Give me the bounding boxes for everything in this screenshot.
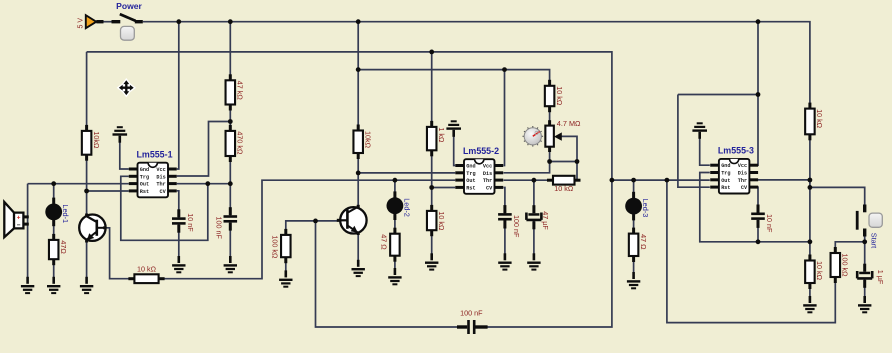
svg-text:Out: Out (466, 178, 475, 184)
svg-text:10 kΩ: 10 kΩ (815, 261, 824, 281)
svg-text:Dis: Dis (483, 171, 492, 177)
svg-text:Thr: Thr (483, 178, 492, 184)
svg-text:100 kΩ: 100 kΩ (271, 235, 280, 259)
svg-text:Led-3: Led-3 (641, 199, 650, 218)
svg-text:−: − (17, 222, 21, 229)
svg-text:Rst: Rst (721, 185, 730, 191)
svg-text:CV: CV (159, 189, 166, 195)
svg-text:47 Ω: 47 Ω (639, 234, 648, 250)
svg-text:Rst: Rst (466, 185, 475, 191)
svg-text:10 nF: 10 nF (186, 213, 195, 232)
svg-text:+: + (17, 215, 21, 222)
svg-text:Lm555-3: Lm555-3 (718, 146, 754, 156)
svg-text:Out: Out (721, 178, 730, 184)
svg-text:Thr: Thr (156, 182, 165, 188)
svg-text:Gnd: Gnd (721, 163, 730, 169)
svg-text:Rst: Rst (140, 189, 149, 195)
svg-text:Dis: Dis (156, 174, 165, 180)
svg-text:Gnd: Gnd (466, 164, 475, 170)
svg-text:Thr: Thr (738, 178, 747, 184)
svg-text:Out: Out (140, 182, 149, 188)
svg-text:Led-2: Led-2 (402, 198, 411, 217)
svg-text:47 µF: 47 µF (541, 211, 550, 230)
svg-text:Gnd: Gnd (140, 167, 149, 173)
svg-text:4.7 MΩ: 4.7 MΩ (557, 119, 581, 128)
svg-text:10 kΩ: 10 kΩ (137, 265, 157, 274)
svg-text:CV: CV (741, 185, 748, 191)
svg-text:47Ω: 47Ω (59, 240, 68, 254)
svg-text:10 nF: 10 nF (765, 214, 774, 233)
svg-text:10 kΩ: 10 kΩ (437, 211, 446, 231)
svg-text:100 kΩ: 100 kΩ (841, 254, 850, 278)
svg-text:5 V: 5 V (78, 18, 85, 29)
svg-text:Vcc: Vcc (156, 167, 165, 173)
svg-text:100 nF: 100 nF (512, 215, 521, 238)
svg-text:Trg: Trg (466, 171, 475, 177)
svg-text:Power: Power (116, 1, 142, 11)
svg-text:100 nF: 100 nF (214, 217, 223, 240)
svg-text:Trg: Trg (140, 174, 149, 180)
svg-text:1 kΩ: 1 kΩ (437, 127, 446, 143)
svg-text:100 nF: 100 nF (460, 309, 483, 318)
svg-text:Vcc: Vcc (483, 164, 492, 170)
svg-text:470 kΩ: 470 kΩ (236, 131, 245, 155)
svg-text:Led-1: Led-1 (61, 204, 70, 223)
svg-text:47 Ω: 47 Ω (380, 234, 389, 250)
svg-text:10 kΩ: 10 kΩ (555, 86, 564, 106)
svg-text:Lm555-2: Lm555-2 (463, 146, 499, 156)
svg-text:10 kΩ: 10 kΩ (815, 109, 824, 129)
svg-text:Trg: Trg (721, 171, 730, 177)
svg-text:10 kΩ: 10 kΩ (554, 184, 574, 193)
svg-text:1 µF: 1 µF (876, 270, 885, 285)
svg-text:Start: Start (870, 233, 879, 248)
svg-text:47 kΩ: 47 kΩ (236, 81, 245, 101)
svg-text:Dis: Dis (738, 171, 747, 177)
svg-text:Vcc: Vcc (738, 163, 747, 169)
svg-text:CV: CV (486, 185, 493, 191)
svg-text:10kΩ: 10kΩ (92, 131, 101, 149)
svg-text:Lm555-1: Lm555-1 (137, 150, 173, 160)
svg-text:10kΩ: 10kΩ (363, 131, 372, 149)
